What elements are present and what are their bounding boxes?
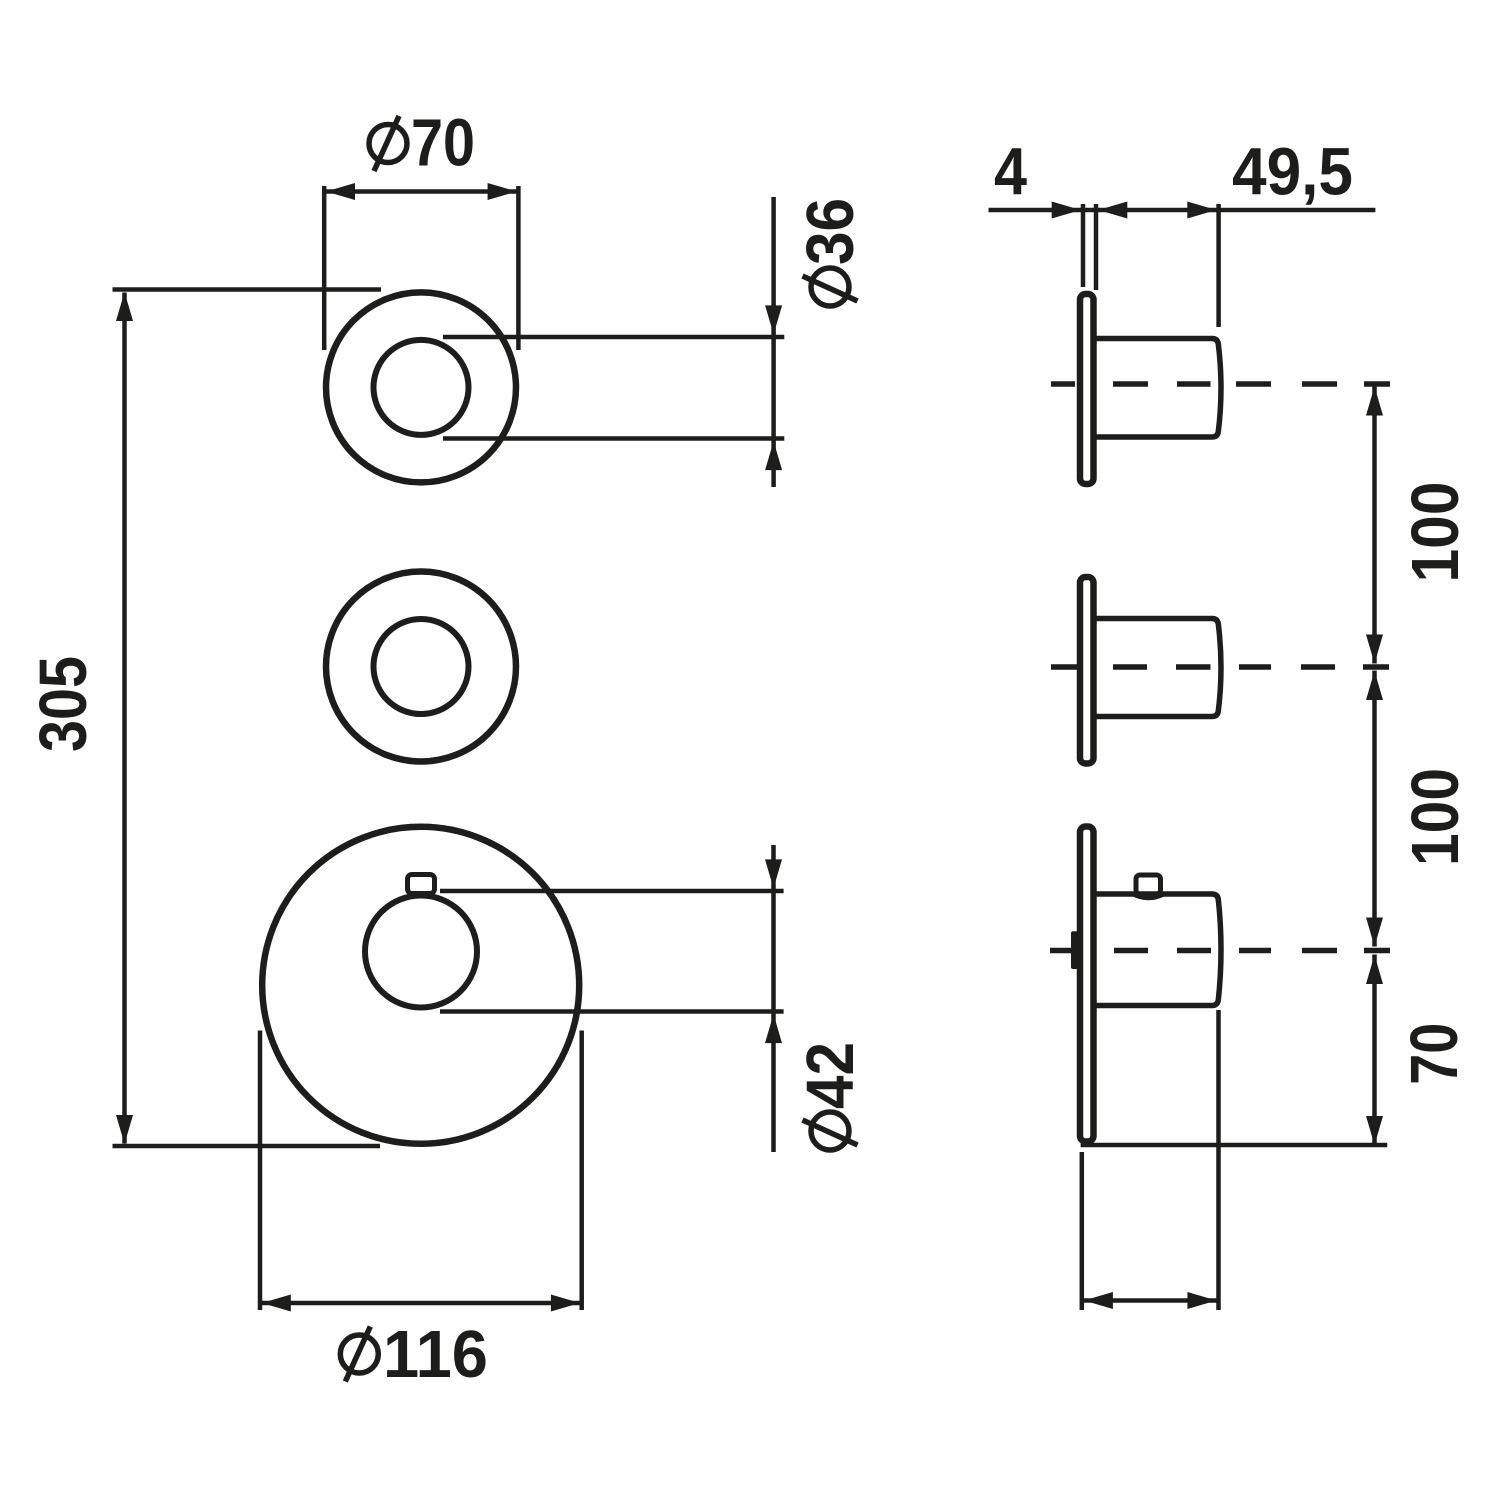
dimension chain segment 2: bottom arrowhead (pointing down) [1366,918,1383,947]
dimension 305: top extension line [113,287,382,292]
label Ø116: diameter symbol [340,1327,378,1382]
front view: middle knob inner circle (handle Ø36) [374,619,469,714]
dimension Ø42: lower arrowhead (pointing up) [765,1014,782,1043]
svg-text:305: 305 [26,656,101,752]
dimension 305: vertical dimension line [122,293,127,1144]
side view row 3: centerline (dashed) [1050,948,1390,954]
svg-text:36: 36 [793,198,868,265]
front view: bottom thermostat knob circle (Ø42) [365,896,477,1008]
dimension Ø42: bottom leader line [440,1009,784,1014]
dimension Ø70: dimension line [324,189,518,194]
dimension 4: extension line of flange front face [1081,204,1086,287]
dimension Ø116: right arrowhead [551,1295,580,1312]
side view: bottom extension line under flange (70 reference) [1081,1143,1388,1148]
dimension 305: bottom arrowhead (pointing down) [116,1115,133,1144]
svg-text:42: 42 [793,1042,868,1109]
dimension 305: top arrowhead (pointing up) [116,292,133,321]
dimension Ø70: left extension line [322,186,327,350]
dimension chain segment 3: bottom arrowhead (pointing down) [1366,1116,1383,1145]
dimension 49,5: left arrowhead (pointing left) [1098,202,1127,219]
svg-text:70: 70 [411,106,475,181]
svg-text:100: 100 [1398,768,1473,866]
side view row 3: rear spindle protrusion [1071,931,1079,969]
side view row 3: thermostat knob cylinder (Ø42) [1096,894,1221,1006]
dimension Ø36: vertical dimension line [771,197,776,487]
label Ø42: diameter symbol (rotated) [803,1112,858,1150]
dimension chain 100/100/70: segment 2 dimension line [1372,671,1377,947]
dimension Ø116: dimension line [260,1301,582,1306]
dimension 4 / 49,5: top dimension line [989,208,1376,213]
dimension chain segment 2: top arrowhead (pointing up) [1366,671,1383,700]
dimension chain 100/100/70: segment 1 dimension line [1372,387,1377,664]
svg-text:70: 70 [1397,1023,1472,1085]
side view row 2: handle cylinder [1096,619,1221,717]
dimension chain segment 1: bottom arrowhead (pointing down) [1366,635,1383,664]
dimension Ø36: upper arrowhead (pointing down) [765,305,782,334]
side view depth dimension: right arrowhead [1187,1292,1216,1309]
svg-text:4: 4 [994,135,1027,210]
side view row 3: tab base arc on cylinder face [1134,894,1164,898]
side view row 3: wall flange plate (Ø116 trim) [1080,827,1094,1142]
side view row 2: centerline (dashed) [1051,664,1389,670]
front view: top knob outer circle (rosette Ø70) [326,292,516,482]
dimension Ø42: upper arrowhead (pointing down) [765,859,782,888]
dimension 4: left arrowhead (pointing right) [1052,202,1081,219]
side view row 3: knob index tab [1136,875,1161,894]
svg-text:49,5: 49,5 [1232,135,1353,210]
side view depth dimension: left extension line [1080,1152,1085,1310]
dimension Ø116: left extension line [258,1031,263,1311]
dimension Ø116: right extension line [579,1031,584,1311]
svg-text:116: 116 [383,1317,488,1392]
dimension Ø36: bottom leader line [443,436,784,441]
dimension 4: extension line of flange back face [1094,204,1099,290]
dimension Ø36: lower arrowhead (pointing up) [765,441,782,470]
dimension Ø70: right arrowhead [488,183,517,200]
front view: middle knob outer circle (rosette Ø70) [326,572,516,762]
side view row 2: wall flange plate [1080,577,1094,764]
dimension chain segment 1: top arrowhead (pointing up) [1366,387,1383,416]
dimension Ø70: right extension line [516,186,521,350]
dimension Ø42: top leader line [440,889,784,894]
dimension 49,5: extension line of knob front face [1216,204,1221,327]
dimension 49,5: right arrowhead (pointing right) [1187,202,1216,219]
dimension 305: bottom extension line [113,1144,381,1149]
side view depth dimension: left arrowhead [1084,1292,1113,1309]
dimension Ø116: left arrowhead [262,1295,291,1312]
side view row 1: handle cylinder (Ø36 x 49,5) [1096,339,1221,438]
svg-text:100: 100 [1398,482,1473,583]
dimension Ø42: vertical dimension line [771,845,776,1152]
label Ø36: diameter symbol (rotated) [803,268,858,306]
front view: bottom knob index tab [408,875,435,894]
dimension chain 100/100/70: segment 3 dimension line [1372,955,1377,1146]
label Ø70: diameter symbol [369,116,407,171]
side view depth dimension: right extension line [1216,1010,1221,1310]
side view row 1: centerline (dashed) [1051,381,1390,387]
side view depth dimension: dimension line [1082,1298,1219,1303]
front view: bottom trim plate circle (Ø116) [262,827,579,1144]
dimension Ø36: top leader line [443,335,784,340]
dimension Ø70: left arrowhead [326,183,355,200]
dimension chain segment 3: top arrowhead (pointing up) [1366,955,1383,984]
side view row 1: wall flange plate (4 mm) [1080,294,1094,484]
front view: top knob inner circle (handle Ø36) [374,340,469,435]
